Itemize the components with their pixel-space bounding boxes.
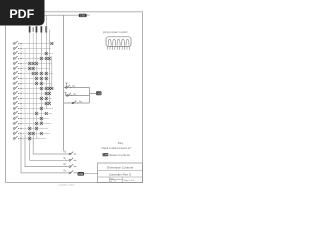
label Ry2: [74, 94, 78, 96]
terminal T5: [33, 27, 34, 32]
wire join vertical: [89, 88, 91, 104]
contact junctions row y58.5: [40, 57, 51, 60]
terminal T2 (dark): [36, 26, 38, 32]
terminal T4 (dark): [45, 26, 47, 32]
svg-text:PDF: PDF: [9, 7, 34, 21]
switch S25: [69, 158, 75, 161]
svg-text:going to power in switch: going to power in switch: [103, 31, 128, 34]
terminal T1 (dark): [29, 26, 31, 32]
contact junctions row y138.5: [28, 137, 31, 140]
switch S10: [13, 86, 19, 89]
wire rung 10: [19, 88, 54, 90]
switch S9: [13, 81, 19, 84]
wire bottom row 1: [62, 153, 77, 155]
label Pw3: [64, 164, 68, 166]
wire bottom row 2: [62, 159, 77, 161]
svg-text:Page 1 of 1: Page 1 of 1: [123, 180, 135, 182]
contact junctions row y53.5: [45, 52, 48, 55]
label box CN3 (dark): [96, 91, 102, 95]
switch S22: [66, 93, 72, 96]
svg-text:Controller Rev G: Controller Rev G: [109, 172, 132, 176]
wire bottom row 4: [62, 172, 98, 174]
switch S24: [69, 152, 75, 155]
wire rung 15: [19, 113, 52, 115]
contact junctions row y103.5: [45, 102, 51, 105]
title block divider 2: [98, 176, 143, 178]
svg-text:CN1: CN1: [80, 14, 86, 18]
wire bus V3 bend: [30, 135, 62, 160]
label Pw2: [64, 158, 68, 160]
switch S8: [13, 76, 19, 79]
label Ry1: [73, 86, 77, 88]
wire left rail V1 bend: [21, 135, 62, 173]
wire rung 14: [19, 108, 53, 110]
wire bus V7: [45, 15, 47, 108]
wire bus V8: [48, 30, 50, 104]
wire rung 19: [19, 133, 50, 135]
switch S26: [69, 164, 75, 167]
connector J1 pins: [108, 46, 130, 49]
contact junctions row y83.5: [35, 82, 43, 85]
switch S19: [13, 131, 19, 134]
wire output to CN3: [90, 93, 97, 95]
connector J1 coils: [108, 39, 129, 45]
switch S3: [13, 51, 19, 54]
wire branch 1 feed tick: [66, 83, 68, 88]
wire rung 9: [19, 83, 52, 85]
connector J1 body: [106, 37, 131, 47]
switch S6: [13, 66, 19, 69]
wire branch 3 horizontal: [64, 102, 90, 104]
switch S20: [13, 136, 19, 139]
svg-text:labelled on a flip are: labelled on a flip are: [109, 154, 130, 157]
wire rung 7: [19, 73, 53, 75]
switch S13: [13, 101, 19, 104]
key line 2 dark chip: [103, 153, 109, 157]
wire rung 4: [19, 58, 49, 60]
svg-text:Key: Key: [118, 141, 124, 145]
switch S15: [13, 111, 19, 114]
title row 3 cells: [110, 177, 136, 183]
title row 2 text: [109, 172, 132, 176]
contact junctions row y88.5: [40, 87, 53, 90]
wire branch 2 horizontal: [66, 95, 90, 97]
svg-text:CN#: CN#: [103, 154, 108, 157]
switch S4: [13, 56, 19, 59]
wire bus V5: [36, 33, 38, 139]
label Ry3: [79, 102, 83, 104]
contact junctions row y93.5: [45, 92, 51, 95]
wire main vertical bus from CN1 down: [63, 15, 65, 150]
label Pw4: [64, 170, 68, 172]
svg-text:CN3: CN3: [96, 93, 102, 96]
key line 2 text: [109, 154, 130, 157]
title row 1 text: [107, 166, 134, 170]
contact junctions row y128.5: [28, 127, 38, 130]
wire rung 20: [19, 138, 46, 140]
contact junctions row y113.5: [35, 112, 48, 115]
contact junctions row y78.5: [35, 77, 48, 80]
wire rung 18: [19, 128, 48, 130]
contact junctions row y98.5: [40, 97, 48, 100]
caption bottom: [58, 183, 74, 186]
wire rung 8: [19, 78, 49, 80]
page border frame: [6, 12, 143, 183]
note text above connector: [103, 31, 128, 34]
PDF badge: [0, 0, 45, 26]
svg-text:CN4: CN4: [78, 173, 84, 176]
wire rung 5: [19, 63, 52, 65]
switch S11: [13, 91, 19, 94]
switch S17: [13, 121, 19, 124]
switch S16: [13, 116, 19, 119]
wire rung 11: [19, 93, 49, 95]
wire rung 2: [19, 48, 51, 50]
wire rung 17: [19, 123, 51, 125]
wire rung 6: [19, 68, 50, 70]
contact junctions row y108.5: [40, 107, 43, 110]
wire branch 1 horizontal: [64, 87, 90, 89]
label box CN1 (dark): [79, 14, 87, 18]
contact junctions row y43.5: [50, 42, 53, 45]
wire branch 2 feed tick: [65, 93, 67, 96]
switch S12: [13, 96, 19, 99]
wire rung 1: [19, 43, 54, 45]
contact junctions row y118.5: [40, 117, 43, 120]
contact junctions row y68.5: [28, 67, 35, 70]
wire left rail V1 upper: [20, 44, 22, 136]
wire bus V4 upper: [32, 33, 34, 135]
switch S21: [65, 85, 71, 88]
wire bus V3 upper: [29, 33, 31, 136]
wire bus V4 bend: [33, 135, 62, 154]
contact junctions row y73.5: [32, 72, 48, 75]
switch S7: [13, 71, 19, 74]
svg-text:Dimension Controls: Dimension Controls: [107, 166, 134, 170]
wire rung 12: [19, 98, 52, 100]
svg-text:T-Contact - Door: T-Contact - Door: [58, 183, 74, 186]
terminal T3 (dark): [41, 26, 43, 32]
wire bus V2 upper: [24, 49, 26, 136]
contact junctions row y63.5: [28, 62, 38, 65]
switch S27: [69, 171, 75, 174]
wire bus V9: [51, 56, 53, 89]
switch S2: [13, 46, 19, 49]
wire rung 16: [19, 118, 49, 120]
title block frame: [98, 163, 143, 183]
switch S23: [72, 101, 78, 104]
switch S5: [13, 61, 19, 64]
switch S1: [13, 41, 19, 44]
wire bottom row 3: [62, 166, 77, 168]
label box CN4 (dark): [78, 172, 85, 176]
wire bus V6: [40, 33, 42, 124]
key title: [118, 141, 124, 145]
switch S14: [13, 106, 19, 109]
contact junctions row y133.5: [28, 132, 43, 135]
key line 1: [101, 147, 132, 150]
label Pw1: [64, 152, 68, 154]
contact junctions row y123.5: [35, 122, 43, 125]
wire rung 13: [19, 103, 50, 105]
title block divider 1: [98, 170, 143, 172]
wire bus V2 bend: [25, 135, 62, 167]
switch S18: [13, 126, 19, 129]
wire rung 3: [19, 53, 53, 55]
wire top net to label CN1: [45, 14, 90, 16]
svg-text:/ Taped to cable connector at: / Taped to cable connector at T: [101, 147, 132, 150]
